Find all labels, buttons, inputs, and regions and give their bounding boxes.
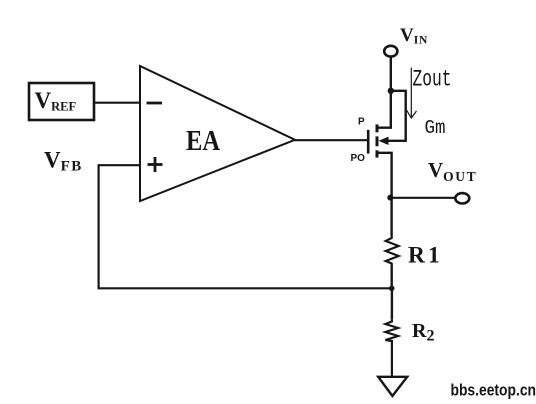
block VREF: [29, 83, 94, 120]
wire VREF to inverting input: [94, 102, 140, 104]
resistor R1: [386, 236, 399, 266]
op-amp U1 EA: [140, 66, 295, 201]
svg-text:P: P: [358, 116, 365, 127]
wire R1 to feedback node: [391, 266, 393, 289]
ground: [378, 377, 407, 396]
wire R2 to ground: [391, 343, 393, 379]
wire VOUT node to terminal: [391, 197, 456, 199]
wire VIN to source junction: [390, 57, 392, 91]
wire drain plate down to VOUT node: [377, 153, 392, 198]
transistor Q1 gate bar: [367, 130, 370, 154]
minus sign inverting input: [147, 102, 163, 105]
svg-text:PO: PO: [351, 153, 366, 164]
transistor Q1 drain plate: [376, 150, 379, 157]
svg-text:bbs.eetop.cn: bbs.eetop.cn: [451, 381, 536, 400]
plus sign noninverting input: [148, 157, 163, 172]
transistor Q1 body plate: [376, 136, 379, 146]
wire noninverting input: [99, 164, 140, 166]
feedback wire horizontal: [98, 287, 392, 289]
svg-text:R1: R1: [408, 243, 443, 269]
terminal VIN: [384, 46, 397, 57]
wire junction to bulk with arrow: [388, 91, 406, 141]
svg-text:Zout: Zout: [413, 67, 452, 93]
arrowhead Zout: [407, 110, 417, 118]
wire VOUT node to R1: [390, 197, 392, 235]
node source junction: [388, 88, 394, 94]
arrow Zout: [410, 68, 412, 118]
svg-text:EA: EA: [186, 126, 221, 157]
transistor Q1 source plate: [376, 124, 379, 132]
terminal VOUT: [455, 193, 469, 203]
wire op-amp output to gate: [294, 139, 368, 141]
feedback wire vertical: [97, 164, 99, 288]
resistor R2: [385, 320, 398, 343]
node VOUT junction: [387, 195, 393, 201]
bulk arrowhead: [379, 137, 389, 145]
wire junction to source plate: [377, 91, 391, 128]
svg-text:Gm: Gm: [425, 117, 446, 139]
wire feedback node to R2: [391, 288, 393, 319]
node feedback junction: [389, 286, 395, 292]
